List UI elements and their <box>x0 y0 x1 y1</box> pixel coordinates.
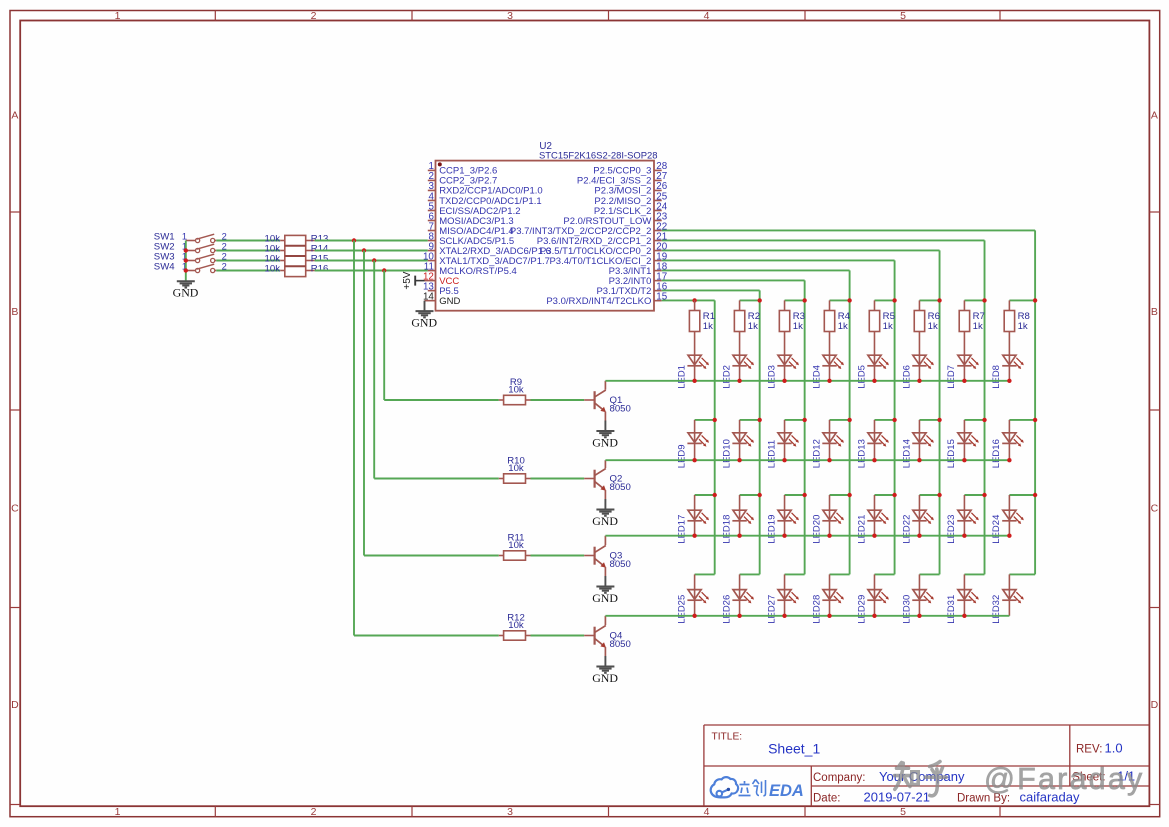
LED13 <box>873 420 875 433</box>
svg-text:B: B <box>1151 306 1158 318</box>
U2 pin 5 ECI/SS/ADC2/P1.2 <box>428 201 521 217</box>
resistor R7 1k <box>959 300 985 355</box>
U2 pin 3 RXD2/CCP1/ADC0/P1.0 <box>428 181 543 197</box>
svg-text:LED31: LED31 <box>946 595 957 624</box>
svg-text:LED19: LED19 <box>766 515 777 544</box>
ground GND under Q2 <box>592 510 618 528</box>
wire cathode rail row 4 <box>605 615 1009 617</box>
svg-text:1k: 1k <box>1018 321 1028 332</box>
node junction rail col 2 row 3 <box>757 493 761 497</box>
switch SW3 <box>154 251 227 262</box>
svg-text:LED23: LED23 <box>946 515 957 544</box>
svg-text:LED10: LED10 <box>721 439 732 468</box>
wire column 8 vertical rail <box>1034 230 1036 574</box>
logo LCEDA cloud <box>711 777 738 797</box>
wire top jog to R6 <box>919 299 939 301</box>
wire SW4 pin2 to R16 <box>216 270 280 272</box>
resistor R14 leads and labels 10k <box>265 243 330 254</box>
U2 pin 4 TXD2/CCP0/ADC1/P1.1 <box>428 191 542 207</box>
resistor R11 10k <box>499 532 531 560</box>
svg-text:10k: 10k <box>265 263 281 274</box>
wire top jog to R8 <box>1009 299 1035 301</box>
LED27 <box>784 574 786 589</box>
node junction rail col 5 row 2 <box>892 418 896 422</box>
wire R9 to Q1 base <box>531 399 585 401</box>
wire top jog to R2 <box>740 299 760 301</box>
resistor R5 1k <box>869 300 895 355</box>
U2 pin 1 CCP1_3/P2.6 <box>428 161 497 177</box>
svg-text:5: 5 <box>900 10 906 22</box>
LED3 <box>777 354 799 380</box>
wire anode jog LED14 <box>919 419 939 421</box>
svg-text:LED11: LED11 <box>766 440 777 468</box>
svg-text:8050: 8050 <box>610 404 631 415</box>
wire anode jog LED12 <box>830 419 850 421</box>
svg-text:LED8: LED8 <box>991 365 1002 389</box>
svg-text:1k: 1k <box>883 321 893 332</box>
svg-text:SW4: SW4 <box>154 261 175 272</box>
svg-text:D: D <box>1151 699 1159 711</box>
junction dots rail row 4 <box>692 614 966 618</box>
svg-text:10k: 10k <box>508 620 524 631</box>
svg-text:LED25: LED25 <box>676 595 687 624</box>
wire column 2 vertical rail <box>759 290 761 574</box>
title block texts <box>712 732 1136 805</box>
wire top jog to R3 <box>785 299 805 301</box>
wire U2 pin 17 to LED column 3 <box>662 279 805 281</box>
svg-text:LED17: LED17 <box>676 515 687 544</box>
LED19 <box>784 495 786 510</box>
U2 pin 23 P2.0/RSTOUT_LOW <box>563 211 667 227</box>
resistor R9 10k <box>499 377 531 405</box>
wire top jog to R7 <box>964 299 984 301</box>
wire SW1 pin2 to R13 <box>216 240 280 242</box>
wire U2 pin 19 to LED column 5 <box>662 259 895 261</box>
wire top jog to R4 <box>830 299 850 301</box>
U2 pin 13 P5.5 <box>423 281 459 297</box>
svg-text:1k: 1k <box>748 321 758 332</box>
wire anode jog LED19 <box>785 494 805 496</box>
svg-text:GND: GND <box>439 296 460 307</box>
svg-text:8050: 8050 <box>610 639 631 650</box>
svg-text:C: C <box>11 503 19 515</box>
LED20 <box>829 495 831 510</box>
zone letters left/right <box>11 110 1159 712</box>
svg-text:GND: GND <box>411 315 437 329</box>
wire anode jog LED24 <box>1009 494 1035 496</box>
svg-text:4: 4 <box>704 10 710 22</box>
svg-text:LED29: LED29 <box>856 595 867 624</box>
switch SW4 <box>154 261 227 272</box>
wire anode jog LED27 <box>785 573 805 575</box>
svg-text:LED13: LED13 <box>856 439 867 468</box>
logo 立 glyph <box>739 781 751 796</box>
svg-text:4: 4 <box>704 806 710 818</box>
node junction rail col 8 row 2 <box>1033 418 1037 422</box>
svg-text:LED7: LED7 <box>946 365 957 389</box>
wire U2 pin 15 to LED column 1 <box>662 299 715 301</box>
ground GND under Q3 <box>592 587 618 605</box>
wire R10 to Q2 base <box>531 478 585 480</box>
node junction to Q4 base branch <box>352 238 356 242</box>
node junction rail col 4 row 2 <box>847 418 851 422</box>
node junction to Q1 base branch <box>382 268 386 272</box>
svg-text:LED18: LED18 <box>721 515 732 544</box>
svg-text:@Faraday: @Faraday <box>984 762 1144 796</box>
LED24 <box>1008 495 1010 510</box>
node junction rail col 7 row 2 <box>982 418 986 422</box>
wire anode jog LED13 <box>874 419 894 421</box>
wire U2 pin 18 to LED column 4 <box>662 269 850 271</box>
wire anode jog LED28 <box>830 573 850 575</box>
svg-text:1k: 1k <box>973 321 983 332</box>
wire anode jog LED17 <box>695 494 715 496</box>
U2 pin 27 P2.4/ECI_3/SS_2 <box>577 171 667 187</box>
wire anode jog LED15 <box>964 419 984 421</box>
LED5 <box>867 354 889 380</box>
LED23 <box>963 495 965 510</box>
U2 pin 14 GND <box>423 291 460 307</box>
wire Q2 emitter to ground <box>604 499 606 510</box>
junction dots rail row 3 <box>692 534 1011 538</box>
wire SW2 pin2 to R14 <box>216 250 280 252</box>
svg-text:LED20: LED20 <box>811 515 822 544</box>
wire anode jog LED26 <box>740 573 760 575</box>
svg-text:1k: 1k <box>928 321 938 332</box>
LED29 <box>873 574 875 589</box>
resistor R12 10k <box>499 612 531 640</box>
wire anode jog LED16 <box>1009 419 1035 421</box>
svg-text:1: 1 <box>115 806 121 818</box>
LED4 <box>822 354 844 380</box>
watermark 知 glyph <box>895 762 947 796</box>
wire vertical to Q3 base resistor <box>363 251 365 556</box>
op-amp U2 STC15F2K16S2-28I-SOP28 body <box>436 141 658 311</box>
LED2 <box>732 354 754 380</box>
U2 pin 7 MISO/ADC4/P1.4 <box>428 221 514 237</box>
LED11 <box>784 420 786 433</box>
wire anode jog LED21 <box>874 494 894 496</box>
svg-text:GND: GND <box>592 591 618 605</box>
LED16 <box>1008 420 1010 433</box>
svg-text:10k: 10k <box>508 463 524 474</box>
wire vertical to Q2 base resistor <box>373 261 375 479</box>
U2 pin 16 P3.1/TXD/T2 <box>596 281 667 297</box>
wire cathode rail row 2 <box>605 459 1009 461</box>
U2 pin 11 MCLKO/RST/P5.4 <box>424 261 517 277</box>
svg-text:LED15: LED15 <box>946 439 957 468</box>
svg-text:GND: GND <box>592 671 618 685</box>
node junction rail col 1 row 2 <box>713 418 717 422</box>
LED32 <box>1008 574 1010 589</box>
U2 pin 15 P3.0/RXD/INT4/T2CLKO <box>546 291 667 307</box>
svg-text:LED5: LED5 <box>856 365 867 389</box>
LED1 <box>687 354 709 380</box>
svg-text:3: 3 <box>507 806 513 818</box>
U2 pin 24 P2.1/SCLK_2 <box>594 201 668 217</box>
wire R12 to Q4 base <box>531 635 585 637</box>
wire anode jog LED25 <box>695 573 715 575</box>
svg-text:2: 2 <box>311 10 317 22</box>
resistor R16 leads and labels 10k <box>265 263 329 274</box>
svg-text:1.0: 1.0 <box>1105 741 1123 756</box>
wire SW pin1 common bus <box>185 241 187 282</box>
switch SW1 <box>154 231 227 242</box>
svg-text:LED1: LED1 <box>676 365 687 389</box>
LED15 <box>963 420 965 433</box>
U2 pin 22 P3.7/INT3/TXD_2/CCP2/CCP2_2 <box>510 221 667 237</box>
node junction rail col 3 row 3 <box>802 493 806 497</box>
resistor R15 leads and labels 10k <box>265 253 329 264</box>
wire anode jog LED11 <box>785 419 805 421</box>
wire anode jog LED18 <box>740 494 760 496</box>
U2 pin 8 SCLK/ADC5/P1.5 <box>428 231 514 247</box>
LED10 <box>739 420 741 433</box>
wire horizontal to base resistor R9 <box>354 635 499 637</box>
wire anode jog LED31 <box>964 573 984 575</box>
wire anode jog LED9 <box>695 419 715 421</box>
resistor stack R13-R16 body <box>285 235 306 276</box>
U2 pin 25 P2.2/MISO_2 <box>594 191 667 207</box>
wire R14 to IC pin 9 <box>315 250 428 252</box>
svg-text:LED9: LED9 <box>676 444 687 468</box>
LED18 <box>739 495 741 510</box>
wire horizontal to base resistor R11 <box>374 478 499 480</box>
wire U2 pin 16 to LED column 2 <box>662 289 760 291</box>
node junction rail col 8 row 3 <box>1033 493 1037 497</box>
wire Q3 emitter to ground <box>604 576 606 587</box>
svg-text:LED30: LED30 <box>901 595 912 624</box>
ground GND on U2 pin 14 <box>411 301 437 330</box>
resistor R8 1k <box>1004 300 1030 355</box>
svg-text:P3.0/RXD/INT4/T2CLKO: P3.0/RXD/INT4/T2CLKO <box>546 296 651 307</box>
wire vertical to Q4 base resistor <box>353 241 355 636</box>
transistor Q3 8050 <box>584 536 631 576</box>
svg-text:GND: GND <box>592 514 618 528</box>
wire column 1 vertical rail <box>714 300 716 574</box>
U2 pin 21 P3.6/INT2/RXD_2/CCP1_2 <box>537 231 667 247</box>
svg-text:R16: R16 <box>311 263 329 274</box>
svg-text:10k: 10k <box>508 540 524 551</box>
svg-text:1: 1 <box>115 10 121 22</box>
svg-text:LED16: LED16 <box>991 439 1002 468</box>
transistor Q4 8050 <box>584 616 631 656</box>
svg-text:LED2: LED2 <box>721 365 732 389</box>
wire vertical to Q1 base resistor <box>383 271 385 401</box>
svg-text:GND: GND <box>173 286 199 300</box>
wire U2 pin 21 to LED column 7 <box>662 239 985 241</box>
wire anode jog LED10 <box>740 419 760 421</box>
switch SW2 <box>154 241 227 252</box>
LED21 <box>873 495 875 510</box>
node junction rail col 6 row 2 <box>937 418 941 422</box>
wire column 4 vertical rail <box>849 270 851 574</box>
node junction to Q2 base branch <box>372 258 376 262</box>
svg-text:Sheet_1: Sheet_1 <box>768 741 820 757</box>
svg-text:LED4: LED4 <box>811 365 822 389</box>
node junction to Q3 base branch <box>362 248 366 252</box>
svg-text:B: B <box>11 306 18 318</box>
U2 pin 2 CCP2_3/P2.7 <box>428 171 497 187</box>
LED14 <box>918 420 920 433</box>
U2 pin 19 P3.4/T0/T1CLKO/ECI_2 <box>549 251 667 267</box>
junction dots on SW bus <box>184 248 188 272</box>
zone numbers top/bottom <box>115 10 907 818</box>
svg-text:D: D <box>11 699 19 711</box>
resistor R13 leads and labels 10k <box>265 233 329 244</box>
resistor R2 1k <box>734 300 760 355</box>
wire column 6 vertical rail <box>939 250 941 574</box>
svg-text:LED27: LED27 <box>766 595 777 624</box>
ground GND under switches <box>173 281 199 299</box>
LED30 <box>918 574 920 589</box>
node junction rail col 6 row 3 <box>937 493 941 497</box>
wire R15 to IC pin 10 <box>315 260 428 262</box>
wire anode jog LED23 <box>964 494 984 496</box>
LED22 <box>918 495 920 510</box>
wire cathode rail row 1 <box>605 380 1009 382</box>
svg-text:8050: 8050 <box>610 482 631 493</box>
svg-text:LED26: LED26 <box>721 595 732 624</box>
svg-text:1k: 1k <box>703 321 713 332</box>
LED26 <box>739 574 741 589</box>
wire cathode rail row 3 <box>605 535 1009 537</box>
svg-text:LED28: LED28 <box>811 595 822 624</box>
svg-text:LED22: LED22 <box>901 515 912 544</box>
junction dots rail row 1 <box>692 379 1011 383</box>
U2 pin 9 XTAL2/RXD_3/ADC6/P1.6 <box>428 241 551 256</box>
resistor R6 1k <box>914 300 940 355</box>
svg-text:REV:: REV: <box>1076 744 1102 756</box>
wire Q4 emitter to ground <box>604 656 606 667</box>
LED6 <box>912 354 934 380</box>
transistor Q2 8050 <box>584 460 631 499</box>
LED25 <box>694 574 696 589</box>
wire U2 pin 22 to LED column 8 <box>662 229 1035 231</box>
svg-text:5: 5 <box>900 806 906 818</box>
LED28 <box>829 574 831 589</box>
ground GND under Q4 <box>592 667 618 685</box>
U2 pin 6 MOSI/ADC3/P1.3 <box>428 211 514 227</box>
U2 pin 20 P3.5/T1/T0CLKO/CCP0_2 <box>540 241 668 256</box>
node junction rail col 3 row 2 <box>802 418 806 422</box>
node junction rail col 5 row 3 <box>892 493 896 497</box>
U2 pin 12 VCC <box>423 271 459 287</box>
svg-text:3: 3 <box>507 10 513 22</box>
wire anode jog LED29 <box>874 573 894 575</box>
LED31 <box>963 574 965 589</box>
U2 pin 28 P2.5/CCP0_3 <box>593 161 667 177</box>
ground GND under Q1 <box>592 431 618 449</box>
power +5V on U2 pin 12 <box>402 271 424 289</box>
resistor R4 1k <box>824 300 850 355</box>
node junction rail col 2 row 2 <box>757 418 761 422</box>
svg-text:LED14: LED14 <box>901 439 912 468</box>
svg-text:A: A <box>1151 110 1158 122</box>
LED9 <box>694 420 696 433</box>
logo 创 glyph <box>753 780 766 796</box>
wire column 5 vertical rail <box>894 260 896 574</box>
wire anode jog LED30 <box>919 573 939 575</box>
wire column 3 vertical rail <box>804 280 806 574</box>
svg-text:LED32: LED32 <box>991 595 1002 624</box>
wire SW3 pin2 to R15 <box>216 260 280 262</box>
resistor R10 10k <box>499 455 531 483</box>
svg-text:GND: GND <box>592 435 618 449</box>
resistor R1 1k <box>689 300 715 355</box>
svg-text:C: C <box>1151 503 1159 515</box>
svg-text:Company:: Company: <box>813 772 865 784</box>
wire Q1 emitter to ground <box>604 421 606 432</box>
resistor R3 1k <box>779 300 805 355</box>
wire column 7 vertical rail <box>984 240 986 574</box>
svg-text:TITLE:: TITLE: <box>712 732 743 743</box>
svg-text:LED3: LED3 <box>766 365 777 389</box>
svg-text:2: 2 <box>311 806 317 818</box>
wire R11 to Q3 base <box>531 555 585 557</box>
svg-text:10k: 10k <box>508 385 524 396</box>
wire anode jog LED22 <box>919 494 939 496</box>
wire anode jog LED32 <box>1009 573 1035 575</box>
wire R16 to IC pin 11 <box>315 270 428 272</box>
wire R13 to IC pin 8 <box>315 240 428 242</box>
U2 pin 17 P3.2/INT0 <box>609 271 668 287</box>
node junction rail col 1 row 3 <box>713 493 717 497</box>
LED8 <box>1002 354 1024 380</box>
U2 pin 10 XTAL1/TXD_3/ADC7/P1.7 <box>423 251 550 267</box>
svg-text:LED24: LED24 <box>991 515 1002 544</box>
wire top jog to R5 <box>874 299 894 301</box>
svg-text:8050: 8050 <box>610 559 631 570</box>
svg-text:2019-07-21: 2019-07-21 <box>864 790 931 805</box>
wire horizontal to base resistor R10 <box>364 555 499 557</box>
wire U2 pin 20 to LED column 6 <box>662 249 940 251</box>
svg-text:LED21: LED21 <box>856 515 867 544</box>
LED17 <box>694 495 696 510</box>
U2 pin 18 P3.3/INT1 <box>609 261 668 277</box>
LED12 <box>829 420 831 433</box>
transistor Q1 8050 <box>584 381 631 421</box>
svg-text:+5V: +5V <box>402 271 413 289</box>
LED7 <box>957 354 979 380</box>
wire anode jog LED20 <box>830 494 850 496</box>
svg-text:1k: 1k <box>838 321 848 332</box>
U2 pin 26 P2.3/MOSI_2 <box>594 181 667 197</box>
svg-text:A: A <box>11 110 18 122</box>
junction dots rail row 2 <box>692 458 1011 462</box>
svg-text:LED6: LED6 <box>901 365 912 389</box>
svg-text:Date:: Date: <box>813 793 841 805</box>
junction dots top row <box>692 298 1037 302</box>
svg-text:Your Company: Your Company <box>879 769 965 784</box>
svg-text:1k: 1k <box>793 321 803 332</box>
title block frame <box>704 725 1150 806</box>
wire horizontal to base resistor R12 <box>384 399 499 401</box>
node junction rail col 4 row 3 <box>847 493 851 497</box>
node junction rail col 7 row 3 <box>982 493 986 497</box>
svg-text:EDA: EDA <box>769 782 804 800</box>
svg-text:LED12: LED12 <box>811 439 822 468</box>
